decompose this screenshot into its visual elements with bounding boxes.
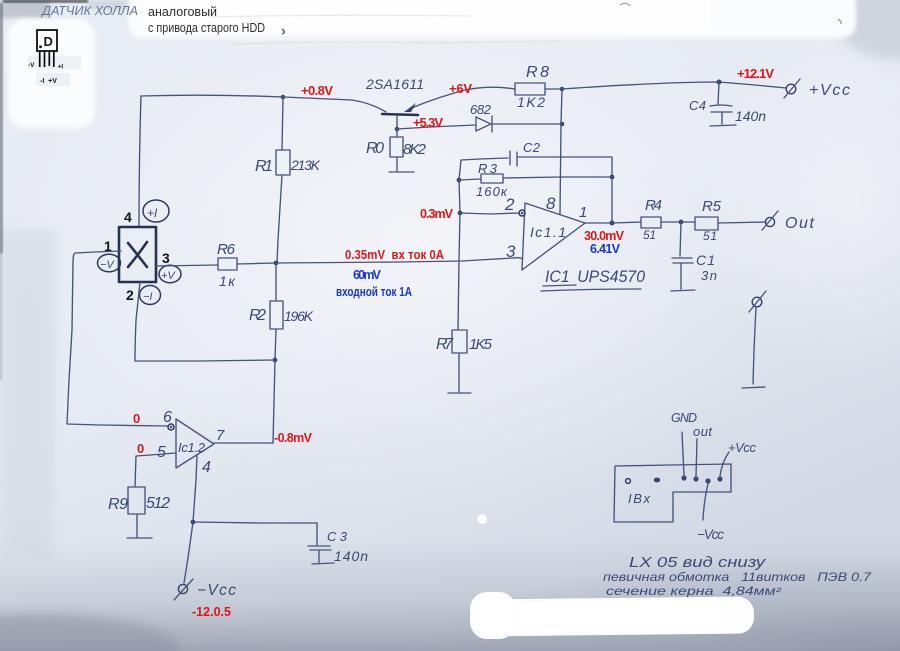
node pin4/C3 junction xyxy=(191,520,196,525)
svg-text:-0.8mV: -0.8mV xyxy=(274,431,313,445)
svg-text:R0: R0 xyxy=(366,140,384,157)
svg-text:+12.1V: +12.1V xyxy=(737,66,774,81)
wire hall pin1 around left to IC1.2 pin6 xyxy=(67,251,167,426)
wire C2 right to output node xyxy=(518,157,612,177)
svg-text:C4: C4 xyxy=(689,98,706,113)
svg-text:30.0mV: 30.0mV xyxy=(584,229,625,243)
wire 0.3mV node down to R7 xyxy=(458,213,460,330)
svg-text:−I: −I xyxy=(143,291,152,303)
svg-text:2: 2 xyxy=(504,195,515,214)
connector pin GND dot xyxy=(681,475,686,480)
wire top rail to transistor emitter xyxy=(283,97,386,112)
wire GND pin lead xyxy=(682,432,684,476)
svg-text:аналоговый: аналоговый xyxy=(148,5,217,19)
resistor R0 xyxy=(390,137,403,157)
svg-text:R4: R4 xyxy=(645,197,662,214)
svg-text:-12.0.5: -12.0.5 xyxy=(192,605,231,619)
svg-text:6.41V: 6.41V xyxy=(590,242,621,256)
capacitor C2 xyxy=(510,151,517,166)
wire +5.3V to diode xyxy=(397,125,476,129)
node R6/R2 junction xyxy=(274,261,279,266)
svg-text:3n: 3n xyxy=(701,268,717,283)
svg-text:GND: GND xyxy=(671,411,697,425)
svg-text:0: 0 xyxy=(137,441,144,456)
svg-text:+Vcc: +Vcc xyxy=(809,82,850,99)
svg-text:R6: R6 xyxy=(217,241,236,258)
circled +V marker xyxy=(159,265,181,283)
op-amp IC1.1 xyxy=(519,203,585,270)
svg-text:+0.8V: +0.8V xyxy=(301,83,333,98)
svg-text:+V: +V xyxy=(161,270,176,282)
svg-text:8: 8 xyxy=(546,194,556,213)
ground at R0 xyxy=(389,171,414,173)
svg-text:1к: 1к xyxy=(219,273,236,289)
white-out dot xyxy=(477,514,487,524)
node R3 left junction xyxy=(457,178,462,183)
circled -I marker xyxy=(140,286,161,305)
node R3 right junction xyxy=(610,175,615,180)
white-out band bottom xyxy=(470,592,754,639)
svg-text:сечение керна 4,84мм²: сечение керна 4,84мм² xyxy=(606,586,783,598)
power -Vcc terminal xyxy=(174,579,236,600)
svg-text:+I: +I xyxy=(147,206,158,220)
hall sensor X1 body xyxy=(119,227,156,282)
op-amp IC1.2 xyxy=(168,419,214,468)
svg-text:+Vcc: +Vcc xyxy=(728,440,757,455)
connector pin dot 2 xyxy=(654,478,660,483)
circled +I marker xyxy=(143,200,169,222)
resistor R7 xyxy=(452,330,467,353)
svg-text:60mV: 60mV xyxy=(353,268,382,282)
wire hall pin3 to R6 xyxy=(156,265,218,266)
wire OUT pin lead xyxy=(696,439,697,476)
wire left feedback vertical xyxy=(459,160,461,213)
node diode junction xyxy=(560,122,565,127)
terminal OUT xyxy=(762,211,815,232)
wire +12.1V rail xyxy=(562,82,786,89)
svg-text:3: 3 xyxy=(162,250,170,266)
wire hall pin2 to R2 junction xyxy=(135,282,275,361)
node +0.8V junction xyxy=(281,95,286,100)
wire IC1.2 pin5 to R9 xyxy=(135,453,176,487)
svg-text:3: 3 xyxy=(506,242,516,261)
node base/R0 junction xyxy=(395,127,400,132)
node output junction xyxy=(610,221,615,226)
svg-text:−V: −V xyxy=(100,259,115,271)
resistor R8 xyxy=(515,83,545,95)
svg-text:0: 0 xyxy=(133,411,140,426)
svg-text:певичная обмотка 11витков: певичная обмотка 11витков ПЭВ 0.7 xyxy=(603,572,872,584)
resistor R9 xyxy=(128,487,145,514)
node C4 junction xyxy=(717,80,722,85)
svg-text:+6V: +6V xyxy=(449,81,472,96)
resistor R2 xyxy=(275,263,277,301)
svg-text:D: D xyxy=(44,34,53,49)
wire pin8 vertical rail xyxy=(560,89,562,214)
svg-text:5: 5 xyxy=(157,444,166,461)
svg-text:R7: R7 xyxy=(436,336,454,353)
resistor R1 xyxy=(282,97,283,150)
capacitor C1 xyxy=(671,222,695,291)
connector pin +Vcc dot xyxy=(717,476,722,481)
wire junction to C3 xyxy=(193,522,317,523)
svg-text:196K: 196K xyxy=(284,308,314,324)
wire -Vcc pin lead xyxy=(703,484,708,520)
svg-text:4: 4 xyxy=(124,209,132,225)
circled -V marker xyxy=(98,254,121,272)
svg-text:ДАТЧИК ХОЛЛА: ДАТЧИК ХОЛЛА xyxy=(40,4,138,18)
wire right feedback vertical to output xyxy=(611,177,613,223)
svg-text:140n: 140n xyxy=(735,108,766,124)
node R4/R5/C1 junction xyxy=(679,220,684,225)
svg-text:R2: R2 xyxy=(249,307,266,324)
wire IC1.2 pin4 to -Vcc xyxy=(184,456,197,583)
svg-text:LX 05 вид снизу: LX 05 вид снизу xyxy=(629,555,766,571)
svg-text:−Vcc: −Vcc xyxy=(197,582,236,599)
hall sensor package pinout legend xyxy=(28,30,63,85)
svg-text:682: 682 xyxy=(470,102,492,117)
white blob top-left xyxy=(8,19,95,128)
capacitor C2 net xyxy=(461,158,508,160)
terminal ground phi xyxy=(742,291,766,388)
svg-text:+I: +I xyxy=(58,64,64,71)
faint smudges in top band xyxy=(210,15,470,17)
svg-text:7: 7 xyxy=(216,427,225,444)
svg-text:R9: R9 xyxy=(108,496,128,513)
svg-text:1: 1 xyxy=(579,204,587,221)
capacitor C4 xyxy=(710,83,736,126)
svg-text:6: 6 xyxy=(163,409,172,426)
svg-text:1K5: 1K5 xyxy=(469,336,493,353)
node R8 output junction xyxy=(560,87,565,92)
wire 0.35mV net to IC1.1 pin3 xyxy=(276,258,522,263)
svg-text:512: 512 xyxy=(146,495,170,512)
wire R2 junction down to IC1.2 output xyxy=(273,360,275,443)
svg-text:-I +V: -I +V xyxy=(40,78,57,85)
svg-text:2: 2 xyxy=(126,287,134,303)
power +Vcc terminal xyxy=(784,79,850,99)
white band top xyxy=(128,0,856,38)
svg-text:R1: R1 xyxy=(255,158,273,175)
ground at R7 xyxy=(448,392,471,394)
svg-text:51: 51 xyxy=(703,229,717,243)
svg-text:2SA1611: 2SA1611 xyxy=(365,76,424,92)
connector LX05 bottom view outline xyxy=(614,464,731,522)
svg-text:Ic1.1: Ic1.1 xyxy=(530,224,566,240)
resistor R6 xyxy=(218,258,237,270)
svg-text:8K2: 8K2 xyxy=(403,141,427,158)
svg-text:IС1 UPS4570: IС1 UPS4570 xyxy=(545,267,646,286)
resistor R3 xyxy=(459,179,481,180)
svg-text:1K2: 1K2 xyxy=(517,94,545,110)
svg-text:с привода старого HDD: с привода старого HDD xyxy=(148,21,265,35)
wire +Vcc pin lead xyxy=(720,452,729,476)
svg-text:C2: C2 xyxy=(523,140,541,155)
wire IC1.2 output xyxy=(214,442,273,444)
label IC1 UPS4570 xyxy=(541,267,646,291)
svg-text:0.3mV: 0.3mV xyxy=(420,207,454,221)
wire left vertical from top rail to hall pin 4 xyxy=(139,96,141,227)
resistor R5 xyxy=(681,221,695,223)
svg-text:−Vcc: −Vcc xyxy=(697,527,724,542)
svg-text:-V: -V xyxy=(28,62,35,69)
svg-text:+5.3V: +5.3V xyxy=(413,115,443,130)
svg-text:R5: R5 xyxy=(702,198,722,215)
connector keying hole xyxy=(626,479,631,484)
dark page edges xyxy=(3,0,88,3)
svg-text:IBх: IBх xyxy=(628,491,651,506)
node 0.3mV xyxy=(458,211,463,216)
svg-text:R8: R8 xyxy=(526,64,549,81)
wire diode to pin8 rail xyxy=(493,123,562,125)
connector pin -Vcc dot xyxy=(705,478,710,483)
ground at R9 xyxy=(127,537,152,539)
wire IC1.1 output xyxy=(585,222,641,223)
svg-text:213K: 213K xyxy=(290,157,321,173)
svg-text:out: out xyxy=(693,424,713,439)
svg-text:140n: 140n xyxy=(334,548,368,564)
svg-text:входной ток 1А: входной ток 1А xyxy=(336,285,412,299)
capacitor C3 xyxy=(308,523,334,564)
node R2 bottom junction xyxy=(273,358,278,363)
svg-text:0.35mV вх ток 0A: 0.35mV вх ток 0A xyxy=(345,248,444,262)
svg-text:Ic1.2: Ic1.2 xyxy=(178,440,206,455)
svg-text:4: 4 xyxy=(202,459,211,476)
svg-text:160к: 160к xyxy=(476,184,508,199)
diode D1 xyxy=(476,116,492,132)
resistor R4 xyxy=(641,217,661,228)
transistor Q1 2SA1611 xyxy=(382,87,515,129)
svg-text:Out: Out xyxy=(785,215,815,232)
wire top +0.8V rail xyxy=(141,95,283,97)
connector pin OUT dot xyxy=(693,476,698,481)
svg-text:C1: C1 xyxy=(696,252,715,268)
wire 0.3mV to IC1.1 pin2 xyxy=(460,213,519,214)
svg-text:51: 51 xyxy=(643,228,656,242)
